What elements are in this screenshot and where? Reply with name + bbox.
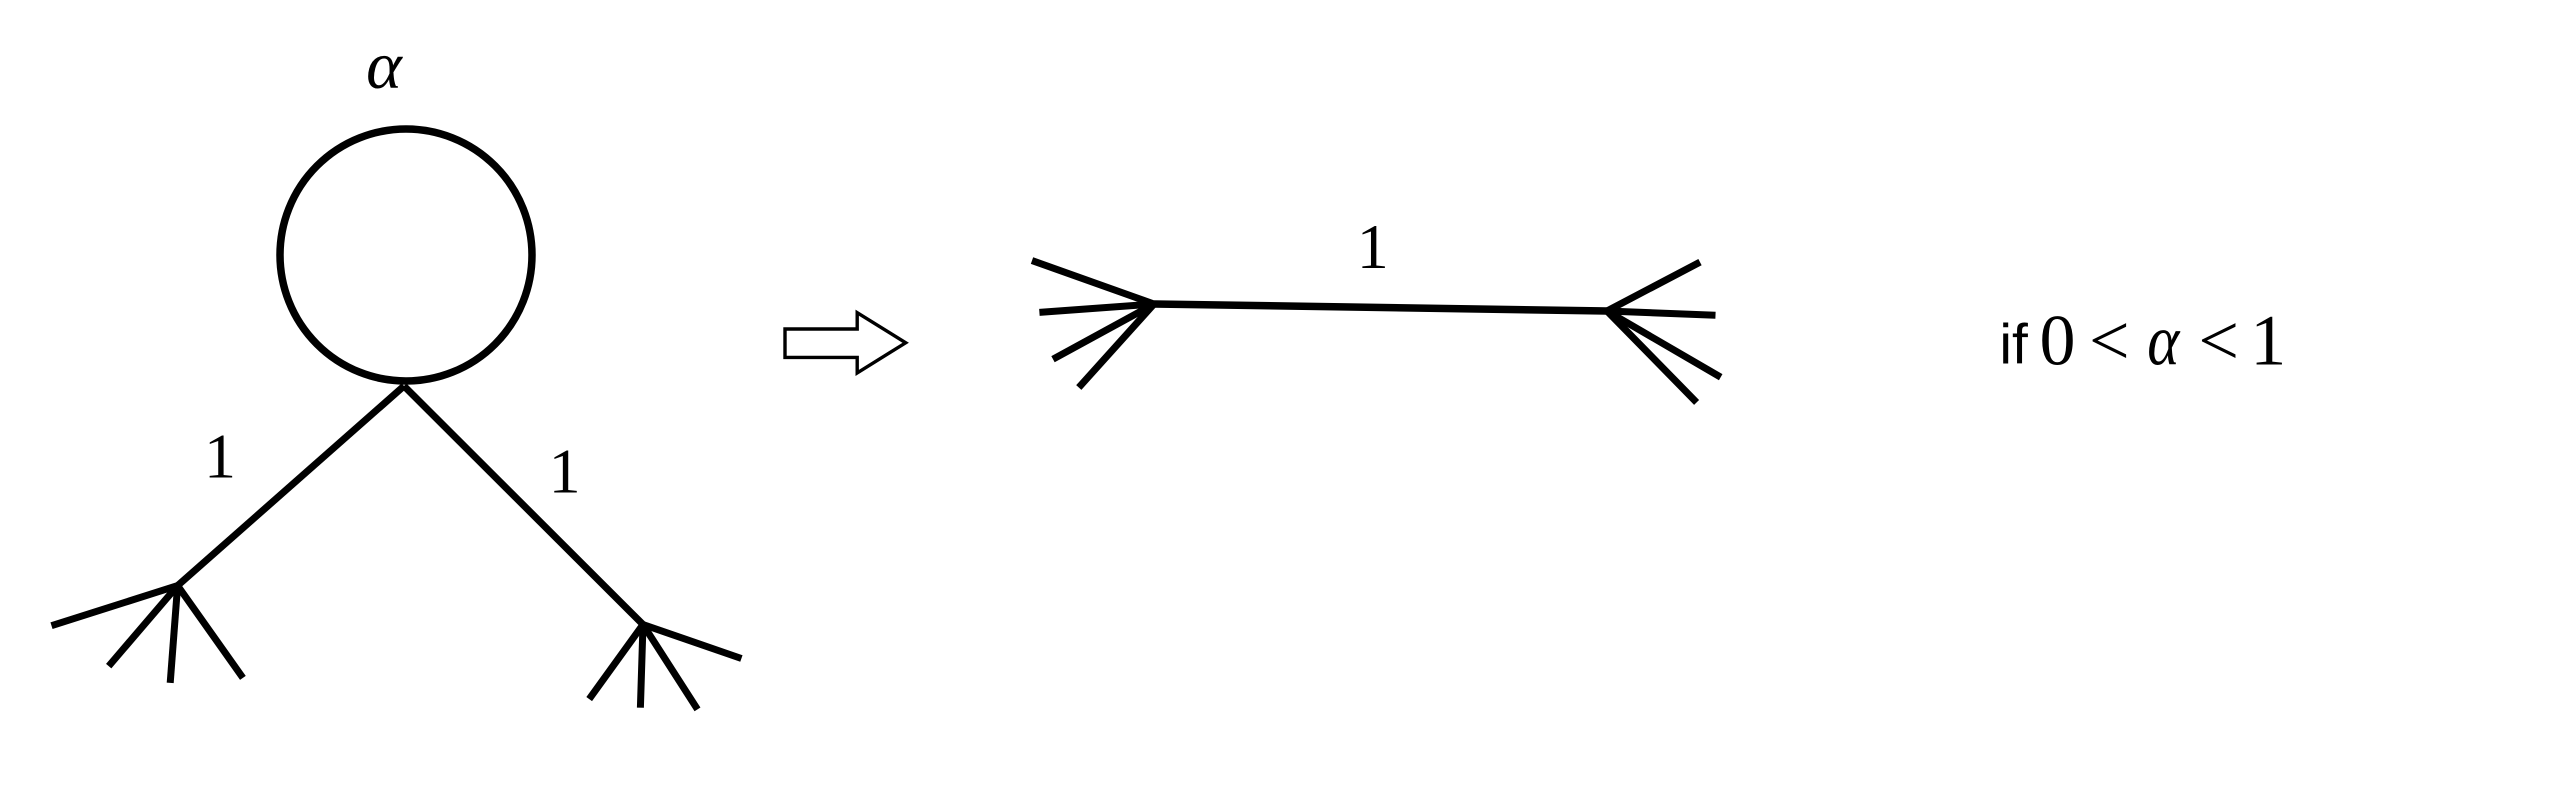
block arrow (implies / rewrite) — [785, 313, 906, 373]
svg-text:<: < — [2198, 300, 2239, 380]
svg-text:α: α — [366, 27, 403, 103]
svg-text:1: 1 — [204, 421, 236, 492]
svg-text:0: 0 — [2040, 300, 2076, 380]
svg-text:if: if — [1999, 312, 2028, 376]
wire: merged edge between the two nodes — [1154, 304, 1607, 311]
left leaf node dangling legs — [52, 586, 243, 683]
svg-text:1: 1 — [1357, 211, 1389, 282]
condition text: if 0 < alpha < 1 — [1999, 300, 2286, 380]
left node dangling legs (result) — [1032, 261, 1154, 388]
node label alpha (self-loop weight) — [366, 27, 403, 103]
svg-text:1: 1 — [549, 436, 581, 507]
wire: right edge from top vertex to right leaf node — [404, 386, 643, 625]
svg-text:<: < — [2089, 300, 2130, 380]
result edge weight label 1 — [1357, 211, 1389, 282]
wire: left edge from top vertex to left leaf node — [178, 386, 404, 586]
edge weight label 1 (left edge) — [204, 421, 236, 492]
svg-text:α: α — [2147, 301, 2181, 381]
self-loop circle on top vertex — [280, 129, 532, 381]
right node dangling legs (result) — [1607, 262, 1721, 402]
right leaf node dangling legs — [589, 625, 741, 710]
edge weight label 1 (right edge) — [549, 436, 581, 507]
svg-text:1: 1 — [2250, 300, 2286, 380]
